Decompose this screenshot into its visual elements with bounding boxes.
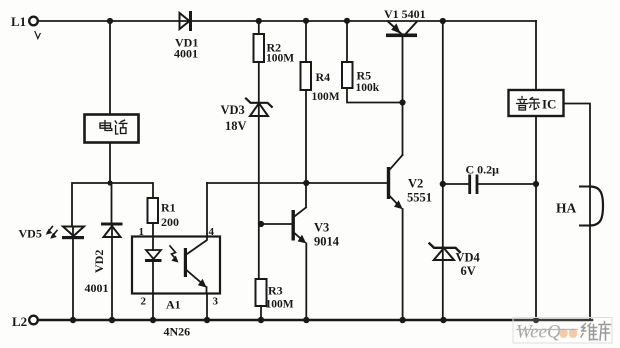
node junction V1 base / R5 — [399, 99, 405, 105]
svg-text:100k: 100k — [356, 82, 380, 94]
svg-text:VD2: VD2 — [92, 250, 106, 273]
svg-text:R1: R1 — [161, 201, 176, 215]
svg-text:VD5: VD5 — [19, 227, 42, 241]
wire bracket — [72, 183, 153, 226]
resistor R1 — [148, 198, 180, 229]
svg-text:1: 1 — [139, 226, 145, 238]
node junction rail R3 — [258, 317, 264, 323]
zener VD4 — [430, 244, 481, 279]
resistor R4 — [301, 21, 340, 103]
svg-text:5551: 5551 — [407, 191, 432, 205]
svg-text:3: 3 — [213, 296, 219, 308]
light arrow inside A1 — [170, 246, 179, 263]
svg-text:100M: 100M — [312, 91, 340, 103]
watermark WeeQoo — [513, 318, 612, 344]
svg-text:18V: 18V — [225, 119, 247, 133]
svg-text:R5: R5 — [357, 69, 372, 83]
svg-text:200: 200 — [161, 215, 179, 229]
resistor R5 — [342, 21, 380, 94]
svg-text:IC: IC — [542, 97, 556, 112]
node junction top of phone column — [107, 18, 113, 24]
terminal L1 — [11, 14, 40, 39]
svg-text:VD4: VD4 — [456, 251, 481, 265]
wire A1 pin3 to rail — [206, 294, 208, 321]
transistor V3 — [261, 208, 340, 321]
svg-text:A1: A1 — [166, 298, 181, 312]
wire phone column upper — [109, 21, 111, 114]
node junction at bracket — [107, 180, 112, 185]
box music IC — [509, 90, 564, 116]
svg-text:4N26: 4N26 — [164, 325, 191, 339]
svg-text:L1: L1 — [11, 14, 26, 29]
svg-text:VD3: VD3 — [221, 103, 245, 117]
node junction base bus x307 — [303, 180, 309, 186]
node junction capacitor left — [440, 181, 446, 187]
svg-text:6V: 6V — [461, 264, 476, 278]
svg-text:100M: 100M — [266, 53, 294, 65]
svg-text:4: 4 — [209, 226, 215, 238]
svg-text:HA: HA — [556, 201, 577, 216]
wire A1 pin4 up — [206, 183, 208, 237]
svg-text:V2: V2 — [408, 177, 423, 191]
svg-text:WeeQ: WeeQ — [516, 322, 561, 343]
svg-text:9014: 9014 — [314, 235, 340, 249]
box 电话 telephone — [85, 115, 139, 143]
svg-text:R3: R3 — [268, 284, 283, 298]
capacitor C — [443, 163, 536, 195]
node junction rail VD5 — [70, 317, 76, 323]
wire phone column lower — [109, 143, 111, 184]
node junction R4 top — [303, 18, 309, 24]
terminal L2 — [12, 314, 38, 329]
node junction rail V3 emitter — [303, 317, 309, 323]
transistor V2 — [387, 155, 432, 320]
node junction rail V2 emitter — [399, 317, 405, 323]
resistor R3 — [256, 279, 294, 311]
wire top rail — [38, 20, 536, 22]
node junction rail VD4 — [440, 317, 446, 323]
node junction R5 top — [344, 18, 350, 24]
node junction V3 base — [258, 221, 264, 227]
node junction rail music IC — [533, 317, 539, 323]
diode VD1 — [174, 11, 198, 61]
wire bottom rail — [38, 319, 592, 322]
LED VD5 — [19, 227, 85, 321]
node junction rail VD2 — [109, 317, 115, 323]
node junction R2 top — [256, 18, 262, 24]
svg-text:V3: V3 — [314, 221, 329, 235]
zener VD3 — [221, 99, 272, 134]
resistor R2 — [254, 21, 295, 65]
wire R2 to VD3 — [258, 62, 260, 279]
svg-text:C 0.2μ: C 0.2μ — [466, 163, 500, 177]
svg-text:4001: 4001 — [85, 281, 109, 295]
diode VD2 — [85, 183, 123, 320]
svg-text:2: 2 — [141, 296, 147, 308]
phototransistor inside A1 — [184, 237, 207, 294]
svg-text:L2: L2 — [12, 314, 27, 329]
LED inside A1 — [145, 237, 162, 294]
wire base bus y183 — [207, 182, 387, 184]
wire music IC right to speaker — [564, 104, 591, 319]
wire R1 to A1 pin1 — [152, 223, 154, 236]
svg-text:100M: 100M — [266, 299, 294, 311]
wire V1 base to V2 collector — [402, 103, 404, 156]
wire VD4 column — [442, 21, 444, 320]
node junction VD4 column top — [440, 18, 446, 24]
wire music IC column upper — [535, 21, 537, 90]
node junction capacitor right — [533, 181, 539, 187]
wire R4 bottom to V3 collector — [305, 90, 307, 207]
wire A1 pin2 to rail — [152, 294, 154, 321]
svg-text:R4: R4 — [316, 70, 331, 84]
speaker HA — [556, 187, 603, 226]
transistor V1 — [384, 7, 426, 103]
wire R3 to rail — [260, 306, 262, 320]
node junction rail A1 pin3 — [204, 317, 210, 323]
wire R5 bottom to node — [347, 88, 403, 103]
svg-text:4001: 4001 — [174, 47, 198, 61]
optocoupler A1 — [132, 226, 220, 339]
wire music IC column lower — [535, 116, 537, 320]
svg-text:V1 5401: V1 5401 — [384, 7, 426, 21]
node junction rail A1 pin2 — [150, 317, 156, 323]
